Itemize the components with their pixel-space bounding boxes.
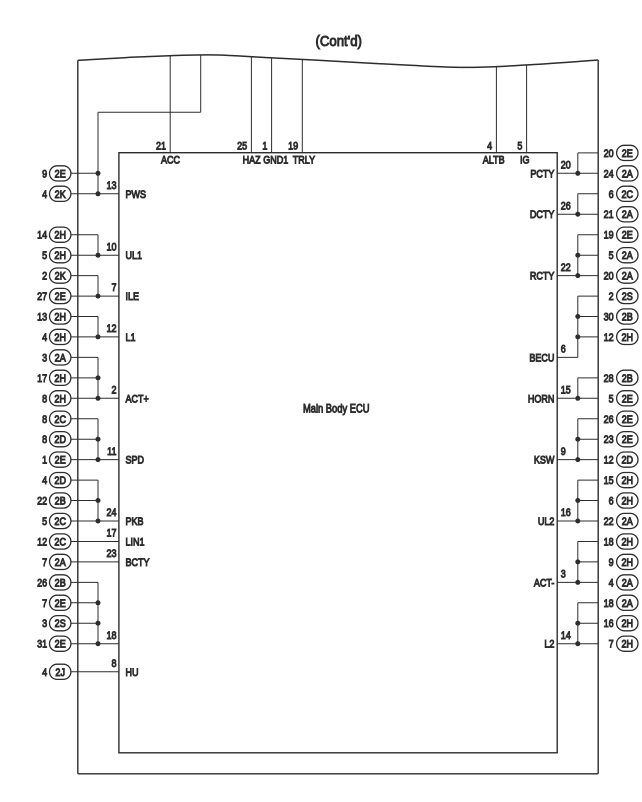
svg-text:16: 16 [604, 618, 614, 630]
svg-text:2J: 2J [55, 667, 65, 679]
svg-text:2B: 2B [622, 373, 633, 385]
svg-text:3: 3 [42, 618, 47, 630]
svg-text:12: 12 [37, 537, 47, 549]
svg-text:6: 6 [561, 344, 566, 356]
svg-text:2D: 2D [54, 435, 66, 447]
svg-text:5: 5 [42, 516, 47, 528]
svg-text:GND1: GND1 [263, 155, 288, 167]
svg-text:2: 2 [609, 291, 614, 303]
svg-text:2A: 2A [622, 169, 633, 181]
svg-text:2: 2 [111, 385, 116, 397]
svg-text:2D: 2D [622, 455, 634, 467]
svg-text:9: 9 [609, 557, 614, 569]
svg-text:2C: 2C [54, 516, 66, 528]
svg-text:2H: 2H [54, 394, 66, 406]
svg-text:8: 8 [111, 658, 116, 670]
svg-text:7: 7 [111, 282, 116, 294]
svg-text:2A: 2A [55, 353, 66, 365]
svg-text:10: 10 [106, 242, 116, 254]
svg-text:DCTY: DCTY [530, 209, 555, 221]
svg-text:2E: 2E [55, 169, 66, 181]
svg-text:2D: 2D [54, 475, 66, 487]
svg-text:ACC: ACC [161, 155, 180, 167]
svg-text:25: 25 [237, 141, 247, 153]
svg-text:19: 19 [288, 141, 298, 153]
svg-text:2H: 2H [622, 332, 634, 344]
svg-text:2E: 2E [622, 148, 633, 160]
svg-text:2H: 2H [622, 537, 634, 549]
svg-text:21: 21 [604, 209, 614, 221]
svg-text:2H: 2H [622, 475, 634, 487]
svg-text:19: 19 [604, 230, 614, 242]
svg-text:8: 8 [42, 434, 47, 446]
svg-text:18: 18 [604, 598, 614, 610]
svg-text:ACT+: ACT+ [126, 394, 149, 406]
svg-text:6: 6 [609, 189, 614, 201]
svg-text:PCTY: PCTY [530, 169, 554, 181]
svg-text:4: 4 [609, 578, 614, 590]
svg-text:(Cont'd): (Cont'd) [315, 32, 362, 49]
svg-text:L1: L1 [126, 332, 136, 344]
svg-text:2S: 2S [622, 291, 633, 303]
svg-text:HU: HU [126, 667, 139, 679]
svg-text:16: 16 [561, 507, 571, 519]
svg-text:2E: 2E [55, 291, 66, 303]
svg-text:LIN1: LIN1 [126, 537, 145, 549]
svg-text:2K: 2K [55, 271, 66, 283]
svg-text:2C: 2C [54, 414, 66, 426]
svg-text:8: 8 [42, 414, 47, 426]
svg-text:24: 24 [106, 507, 116, 519]
svg-text:2H: 2H [54, 332, 66, 344]
svg-text:11: 11 [107, 446, 117, 458]
svg-text:17: 17 [106, 528, 116, 540]
svg-text:2B: 2B [55, 496, 66, 508]
svg-text:6: 6 [609, 496, 614, 508]
svg-text:PKB: PKB [126, 516, 144, 528]
svg-text:HORN: HORN [528, 394, 555, 406]
svg-text:PWS: PWS [126, 189, 147, 201]
svg-text:5: 5 [609, 394, 614, 406]
svg-text:3: 3 [561, 569, 566, 581]
svg-text:2A: 2A [622, 250, 633, 262]
svg-text:2H: 2H [54, 312, 66, 324]
svg-text:ILE: ILE [126, 291, 140, 303]
svg-text:2C: 2C [54, 537, 66, 549]
svg-text:4: 4 [42, 667, 47, 679]
svg-text:ALTB: ALTB [483, 155, 505, 167]
svg-text:2A: 2A [55, 557, 66, 569]
svg-text:26: 26 [561, 201, 571, 213]
svg-text:2E: 2E [622, 230, 633, 242]
svg-text:13: 13 [106, 180, 116, 192]
svg-text:31: 31 [37, 639, 47, 651]
svg-text:2E: 2E [55, 598, 66, 610]
svg-text:9: 9 [561, 446, 566, 458]
svg-text:4: 4 [42, 189, 47, 201]
svg-text:30: 30 [604, 312, 614, 324]
svg-text:2E: 2E [55, 455, 66, 467]
svg-text:2A: 2A [622, 210, 633, 222]
svg-text:20: 20 [604, 271, 614, 283]
svg-text:2: 2 [42, 271, 47, 283]
svg-text:IG: IG [520, 155, 530, 167]
svg-text:22: 22 [37, 496, 47, 508]
svg-text:2H: 2H [54, 250, 66, 262]
svg-text:7: 7 [42, 598, 47, 610]
svg-text:RCTY: RCTY [530, 271, 555, 283]
svg-text:22: 22 [561, 262, 571, 274]
svg-text:4: 4 [487, 141, 492, 153]
svg-text:9: 9 [42, 169, 47, 181]
svg-text:2E: 2E [622, 435, 633, 447]
svg-text:23: 23 [604, 434, 614, 446]
svg-text:2E: 2E [622, 414, 633, 426]
svg-text:2B: 2B [622, 312, 633, 324]
svg-text:18: 18 [604, 537, 614, 549]
svg-text:HAZ: HAZ [243, 155, 261, 167]
svg-text:24: 24 [604, 169, 614, 181]
svg-text:15: 15 [604, 475, 614, 487]
svg-text:BECU: BECU [529, 353, 554, 365]
svg-text:4: 4 [42, 332, 47, 344]
svg-text:2A: 2A [622, 271, 633, 283]
svg-text:7: 7 [609, 639, 614, 651]
svg-text:SPD: SPD [126, 455, 145, 467]
svg-text:2E: 2E [55, 639, 66, 651]
svg-text:5: 5 [517, 141, 522, 153]
svg-text:3: 3 [42, 353, 47, 365]
svg-text:20: 20 [561, 160, 571, 172]
svg-text:2H: 2H [622, 557, 634, 569]
svg-text:2A: 2A [622, 578, 633, 590]
svg-text:2B: 2B [55, 578, 66, 590]
svg-text:ACT-: ACT- [534, 578, 555, 590]
svg-text:2A: 2A [622, 516, 633, 528]
svg-text:26: 26 [604, 414, 614, 426]
svg-text:2H: 2H [54, 373, 66, 385]
svg-text:5: 5 [42, 250, 47, 262]
svg-text:1: 1 [42, 455, 47, 467]
svg-text:2H: 2H [622, 639, 634, 651]
svg-text:17: 17 [37, 373, 47, 385]
svg-text:27: 27 [37, 291, 47, 303]
svg-text:14: 14 [561, 630, 571, 642]
svg-text:22: 22 [604, 516, 614, 528]
svg-text:2K: 2K [55, 189, 66, 201]
svg-text:7: 7 [42, 557, 47, 569]
svg-text:Main Body ECU: Main Body ECU [303, 402, 369, 415]
svg-text:18: 18 [106, 630, 116, 642]
svg-text:KSW: KSW [534, 455, 555, 467]
svg-text:15: 15 [561, 385, 571, 397]
svg-text:UL2: UL2 [538, 516, 555, 528]
svg-text:BCTY: BCTY [126, 557, 150, 569]
svg-text:2H: 2H [622, 619, 634, 631]
svg-text:UL1: UL1 [126, 250, 143, 262]
svg-text:20: 20 [604, 148, 614, 160]
svg-text:8: 8 [42, 394, 47, 406]
svg-text:14: 14 [37, 230, 47, 242]
svg-text:23: 23 [106, 548, 116, 560]
svg-text:2H: 2H [54, 230, 66, 242]
svg-text:12: 12 [106, 323, 116, 335]
svg-text:12: 12 [604, 332, 614, 344]
svg-text:21: 21 [156, 141, 166, 153]
svg-text:12: 12 [604, 455, 614, 467]
svg-text:L2: L2 [544, 639, 554, 651]
svg-text:2A: 2A [622, 598, 633, 610]
svg-text:2S: 2S [55, 619, 66, 631]
svg-text:28: 28 [604, 373, 614, 385]
svg-text:2C: 2C [622, 189, 634, 201]
svg-text:26: 26 [37, 578, 47, 590]
svg-text:1: 1 [262, 141, 267, 153]
svg-text:TRLY: TRLY [293, 155, 316, 167]
svg-text:13: 13 [37, 312, 47, 324]
svg-text:5: 5 [609, 250, 614, 262]
svg-text:2E: 2E [622, 394, 633, 406]
svg-text:2H: 2H [622, 496, 634, 508]
svg-text:4: 4 [42, 475, 47, 487]
